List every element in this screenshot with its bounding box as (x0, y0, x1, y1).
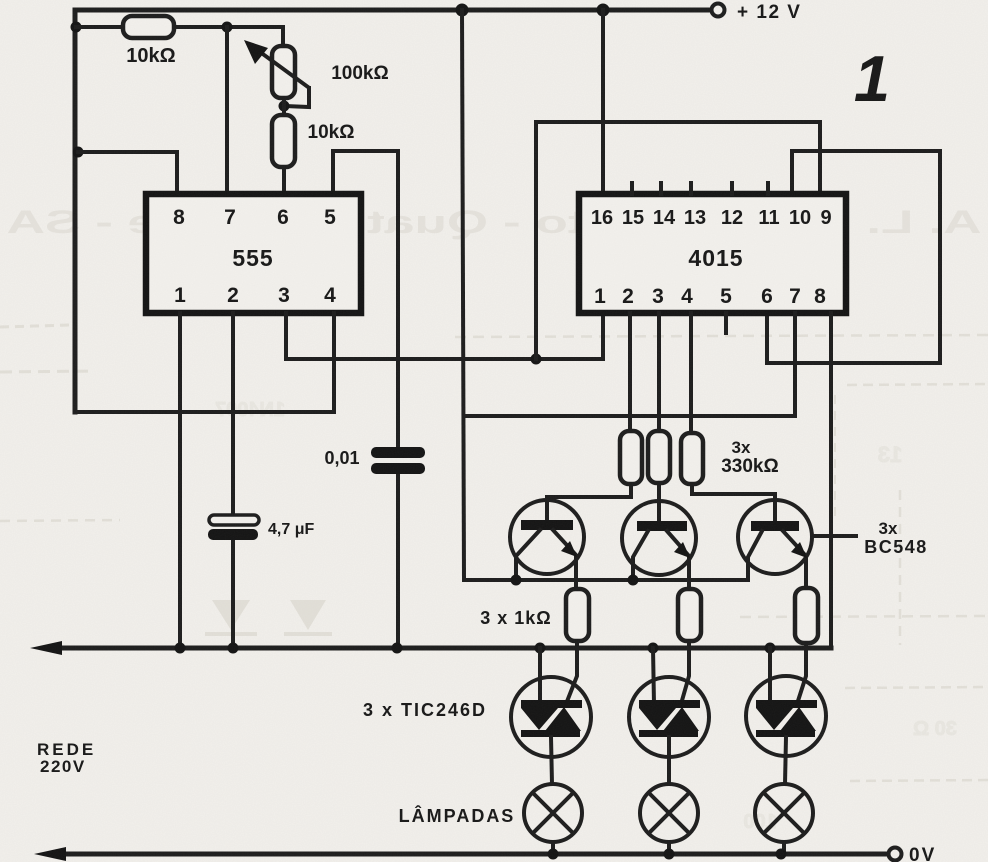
lamp L3 (755, 784, 813, 842)
ghost show-through artifacts (0, 325, 988, 833)
resistor R1 10k body (123, 16, 174, 38)
triac TR2 TIC246D (653, 648, 654, 704)
resistor R4 330k body (648, 431, 670, 483)
node: junction dot pin7 tap (222, 22, 233, 33)
U2 pin 14 stub (659, 183, 663, 194)
wire: 555 pin4 to left vertical (75, 313, 334, 412)
triac TR3 TIC246D (768, 648, 772, 704)
resistor R5 330k body (681, 433, 703, 484)
resistor R3 330k body (620, 431, 642, 484)
node: 0V rail dot L3 (776, 849, 787, 860)
wire: C1 down to REDE rail (231, 539, 235, 648)
node: junction dot clock line (531, 354, 542, 365)
wire: 555 pin2 down to C1 (231, 313, 235, 516)
resistor R8 1k body (795, 588, 818, 643)
U2 pin 13 stub (689, 183, 693, 194)
wire: 4015 pin2 down to R3 (628, 313, 632, 431)
node: junction dot 10k top left (71, 22, 82, 33)
wire: top +12V rail (75, 10, 710, 412)
node: REDE rail dot C1 (228, 643, 239, 654)
wire: 4015 pin5 stub (724, 313, 728, 333)
wire: 4015 pin8 down to REDE rail (829, 313, 833, 648)
IC U1 555 box (146, 194, 361, 313)
potentiometer P1 100k body (272, 46, 295, 98)
wire: REDE rail with left arrow (58, 646, 831, 651)
potentiometer P1 wiper link (284, 88, 309, 107)
wire: R6 to triac TR1 gate (566, 641, 577, 704)
terminal 0V (889, 848, 902, 861)
wire: 555 pin1 down to REDE rail (178, 313, 182, 648)
node: junction dot rail x603 (597, 4, 610, 17)
node: junction dot Q2 collector (628, 575, 639, 586)
wire: R3 to Q1 base (547, 484, 631, 521)
capacitor C2 0.01 plates (371, 447, 425, 458)
node: junction dot Q1 collector (511, 575, 522, 586)
U2 pin 15 stub (630, 183, 634, 194)
node: REDE rail dot TR1 (535, 643, 546, 654)
node: REDE rail dot TR3 (765, 643, 776, 654)
U2 pin 12 stub (730, 183, 734, 194)
wire: bottom 0V rail with left arrow (62, 852, 887, 857)
lamp L1 (524, 784, 582, 842)
node: REDE rail dot C2 (392, 643, 403, 654)
wire: 4015 pin10 to pin6 loop (767, 151, 940, 363)
node: REDE rail dot pin1 (175, 643, 186, 654)
resistor R2 10k body (282, 98, 286, 115)
node: REDE rail dot TR2 (648, 643, 659, 654)
potentiometer P1 arrow (256, 49, 308, 87)
wire: 4015 pin7 to x463 vertical (464, 313, 795, 416)
U2 pin 11 stub (766, 183, 770, 194)
terminal +12V (712, 4, 725, 17)
transistor Q2 BC548 (622, 501, 696, 575)
node: junction dot pin8 tap (73, 147, 84, 158)
wire: R7 to triac TR2 gate (681, 641, 689, 704)
node: junction dot rail x463 (456, 4, 469, 17)
IC U2 4015 box (579, 194, 846, 313)
wire: 4015 pin4 down to R5 (689, 313, 693, 433)
wire: +12V down x463 to collector rail (462, 10, 464, 580)
wire: x398 below cap down to REDE rail (396, 474, 400, 648)
ghost show-through headline (mirrored) (7, 204, 982, 240)
wire: collector rail (464, 578, 748, 582)
capacitor C1 4.7uF plates (209, 515, 259, 525)
node: 0V rail dot L1 (548, 849, 559, 860)
wire: +12V down x603 to 4015 pin16 (601, 10, 605, 194)
resistor R1 10k leads (76, 25, 123, 29)
wire: clock to 4015 pin9 (536, 122, 820, 359)
label 3x BC548 with callout (814, 534, 856, 538)
wire: R5 to Q3 base (692, 484, 775, 522)
wire: 555 pin5 up over to x398 down to 0.01 cap (333, 151, 398, 448)
node: 0V rail dot L2 (664, 849, 675, 860)
transistor Q1 BC548 (510, 500, 584, 574)
wire: 555 pin7 up to R1/P1 junction (225, 27, 229, 194)
resistor R6 1k body (566, 589, 589, 641)
lamp L2 (640, 784, 698, 842)
wire: R4 to Q2 base (657, 483, 661, 522)
wire: 4015 pin3 down to R4 (657, 313, 661, 431)
resistor R7 1k body (678, 589, 701, 641)
triac TR1 TIC246D (538, 648, 542, 704)
transistor Q3 BC548 (738, 500, 812, 574)
wire: R8 to triac TR3 gate (797, 643, 806, 704)
node: junction dot pot bottom (279, 101, 290, 112)
wire: 555 pin3 to 4015 pin1 (clock line) (286, 313, 603, 359)
wire: 555 pin8 to left rail (78, 152, 177, 194)
